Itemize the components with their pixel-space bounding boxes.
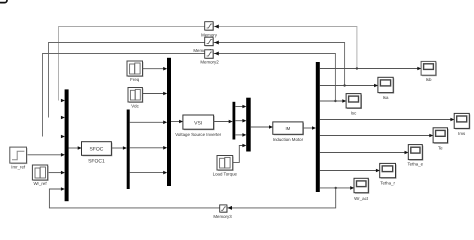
wire: bottom feedback Wr loop xyxy=(49,188,335,208)
block Load Torque xyxy=(213,156,238,177)
demux D2 xyxy=(127,110,130,190)
block Wr_ref xyxy=(32,165,48,186)
mux MB xyxy=(246,98,251,152)
mux M3 xyxy=(167,58,171,186)
scope Tetha_e xyxy=(407,145,423,167)
block SFOC xyxy=(82,142,113,165)
arrows into mux M1 xyxy=(61,99,65,191)
svg-text:Memory3: Memory3 xyxy=(213,214,232,219)
wire: Wr_ref to mux xyxy=(48,172,64,174)
block Memory1 xyxy=(193,37,218,53)
wire Load Torque to mux MB xyxy=(233,146,245,163)
svg-text:Te: Te xyxy=(438,145,443,150)
svg-text:Isb: Isb xyxy=(426,77,432,82)
wire Vdc to mux M3 xyxy=(142,93,165,95)
svg-text:Isc: Isc xyxy=(351,111,357,116)
cut-off icon top-left xyxy=(0,0,7,3)
svg-text:Isa: Isa xyxy=(383,95,389,100)
wires demux D2 to mux M3 xyxy=(130,122,166,172)
demux D4 xyxy=(316,62,320,192)
block Vdc xyxy=(128,88,143,109)
scope Tetha_r xyxy=(380,163,397,185)
scope Isc xyxy=(346,94,362,116)
wire: SFOC to demux D2 xyxy=(111,147,125,149)
svg-text:Wr_act: Wr_act xyxy=(354,196,369,201)
junction dots xyxy=(334,67,358,189)
svg-text:Voltage Source Inverter: Voltage Source Inverter xyxy=(175,132,221,137)
wire: Memory2 feedback xyxy=(43,54,336,137)
wires DA to MB xyxy=(235,107,245,135)
svg-text:Memory2: Memory2 xyxy=(200,59,219,64)
demux D4 outputs xyxy=(320,69,453,188)
wire MB to IM xyxy=(251,126,272,128)
svg-text:IM: IM xyxy=(285,126,290,131)
mux M1 xyxy=(65,89,69,201)
svg-text:Imr_ref: Imr_ref xyxy=(11,164,26,169)
block Memory xyxy=(201,22,219,38)
svg-text:Wr_ref: Wr_ref xyxy=(33,181,47,186)
svg-text:Vdc: Vdc xyxy=(131,103,139,108)
block VSI xyxy=(175,115,221,137)
block step Imr_ref xyxy=(10,147,28,169)
wire: Memory1 feedback xyxy=(49,43,345,118)
wire VSI to demux DA xyxy=(214,121,232,123)
block Memory3 xyxy=(213,205,232,219)
block IM xyxy=(273,122,304,142)
wire IM to demux D4 xyxy=(303,127,315,129)
scope Ims xyxy=(454,113,470,135)
svg-text:Tetha_r: Tetha_r xyxy=(380,180,395,185)
svg-text:SFOC1: SFOC1 xyxy=(88,158,105,164)
wire: Imr_ref to mux xyxy=(27,154,64,156)
wire: Memory feedback (light) horiz top xyxy=(59,27,357,101)
wire Freq to mux M3 xyxy=(143,68,166,70)
svg-text:Induction Motor: Induction Motor xyxy=(273,137,304,142)
scope Te xyxy=(433,128,448,151)
svg-text:Ims: Ims xyxy=(458,131,466,136)
svg-text:Freq: Freq xyxy=(130,77,140,82)
block Memory2 xyxy=(200,50,219,65)
svg-text:Load Torque: Load Torque xyxy=(213,171,238,176)
svg-text:SFOC: SFOC xyxy=(89,147,103,153)
svg-text:VSI: VSI xyxy=(194,120,202,126)
wire mux M3 to VSI xyxy=(171,121,182,123)
scope Isa xyxy=(378,77,394,100)
block Freq xyxy=(127,61,144,82)
svg-text:Tetha_e: Tetha_e xyxy=(407,162,423,167)
scope Isb xyxy=(421,61,437,82)
scope Wr_act xyxy=(354,178,369,201)
wire: mux M1 to SFOC xyxy=(69,147,81,149)
demux DA xyxy=(233,102,236,140)
